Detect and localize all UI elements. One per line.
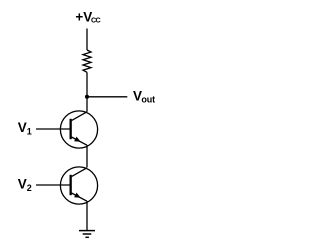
svg-text:2: 2 bbox=[27, 183, 32, 193]
resistor R1 bbox=[83, 50, 91, 72]
svg-text:out: out bbox=[141, 95, 155, 105]
wire resistor to collector node bbox=[86, 72, 88, 112]
ground bbox=[79, 231, 95, 238]
wire V1 to base Q1 bbox=[36, 128, 71, 130]
svg-text:1: 1 bbox=[27, 127, 32, 137]
label V1 bbox=[18, 120, 32, 137]
wire Q1 emitter to Q2 collector bbox=[86, 145, 88, 167]
svg-text:V: V bbox=[18, 176, 27, 191]
label +Vcc bbox=[75, 9, 100, 24]
transistor Q1 bbox=[60, 111, 97, 148]
svg-text:CC: CC bbox=[91, 15, 100, 24]
node junction dot bbox=[85, 95, 89, 99]
svg-text:+V: +V bbox=[75, 9, 92, 24]
wire V2 to base Q2 bbox=[36, 184, 71, 186]
wire Q2 emitter to ground bbox=[86, 201, 88, 231]
wire node to Vout bbox=[87, 96, 127, 98]
label V2 bbox=[18, 176, 32, 192]
svg-text:V: V bbox=[18, 120, 27, 135]
transistor Q2 bbox=[60, 167, 97, 204]
wire Vcc to resistor bbox=[86, 29, 88, 51]
label Vout bbox=[133, 89, 155, 105]
